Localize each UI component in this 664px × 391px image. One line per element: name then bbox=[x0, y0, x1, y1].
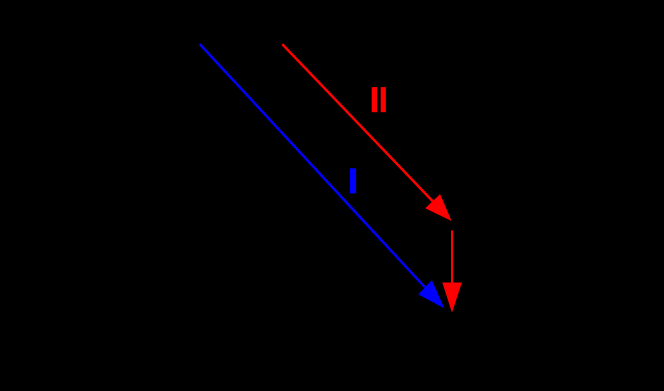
label I (blue) bbox=[350, 168, 356, 193]
wire: red vector II shaft bbox=[282, 44, 433, 201]
wire: blue vector I shaft bbox=[200, 44, 425, 287]
blue vector I arrowhead bbox=[418, 280, 444, 308]
label II (red) bbox=[372, 87, 386, 112]
red vertical component arrowhead bbox=[442, 283, 462, 313]
wire: red vertical component shaft bbox=[451, 230, 453, 282]
red vector II arrowhead bbox=[425, 194, 451, 221]
